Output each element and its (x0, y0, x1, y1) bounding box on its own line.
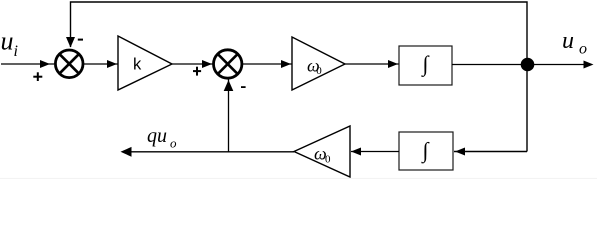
minus sign at S2 bottom input (241, 86, 246, 88)
wire w0 to integrator I1 (345, 60, 399, 68)
minus sign at S1 top input (78, 39, 83, 41)
svg-text:0: 0 (325, 154, 331, 166)
wire w0 feedback to qu_o output arrow (121, 147, 295, 157)
summing junction S2 (214, 50, 242, 78)
wire branch up into S2 (224, 79, 234, 152)
wire node to output arrow (528, 61, 594, 69)
plus sign at S1 input (33, 72, 42, 81)
wire I2 to gain w0 feedback (351, 148, 399, 156)
label u_o (562, 28, 587, 58)
svg-text:k: k (133, 56, 142, 74)
wire S2 to gain w0 (242, 60, 293, 68)
output node (dot) (521, 58, 535, 72)
label qu_o (147, 125, 177, 151)
svg-text:o: o (579, 41, 587, 58)
svg-text:0: 0 (316, 65, 322, 77)
wire k to summer S2 (172, 60, 213, 68)
wire S1 to gain k (84, 60, 119, 68)
integrator I1 (399, 46, 452, 85)
svg-text:u: u (562, 28, 574, 54)
label u_i (1, 27, 18, 60)
wire input to summer S1 (1, 60, 54, 68)
gain block w0 feedback (triangle pointing left) (294, 126, 350, 177)
svg-text:qu: qu (147, 125, 167, 147)
wire I1 to output node (452, 64, 527, 66)
svg-text:u: u (1, 27, 14, 56)
wire top feedback: node up, across, down into S1 (66, 2, 527, 65)
integrator I2 (399, 132, 453, 170)
wire bottom rail into integrator I2 (454, 148, 527, 156)
svg-text:o: o (170, 136, 177, 151)
summing junction S1 (55, 50, 83, 78)
svg-text:i: i (14, 43, 18, 60)
faint scan artifact line at bottom (0, 178, 597, 179)
wire bottom feedback: node down to bottom rail (526, 65, 528, 152)
gain block w0 (triangle) (292, 37, 345, 90)
plus sign at S2 input (193, 67, 201, 76)
gain block k (triangle) (118, 36, 172, 90)
